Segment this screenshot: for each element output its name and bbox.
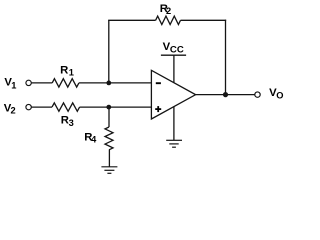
terminal V1 [26,80,31,85]
wire V1 terminal to R1 [31,82,52,84]
wire top rail right segment [181,19,227,21]
wire feedback down to output node [225,20,227,95]
op-amp U1 [151,70,195,119]
label R4 [84,131,97,144]
svg-text:1: 1 [11,80,16,90]
svg-text:O: O [276,90,283,100]
wire op-amp output [196,94,255,96]
wire VCC to op-amp [173,55,175,83]
wire V2 terminal to R3 [31,106,52,108]
wire R4 to ground [108,150,110,167]
resistor R1 [52,79,79,87]
resistor R2 [156,16,181,24]
svg-text:CC: CC [170,45,184,56]
label R2 [160,3,171,16]
label R3 [61,114,74,128]
resistor R4 [105,127,113,150]
ground under op-amp [166,140,182,147]
svg-text:3: 3 [69,118,74,128]
wire node B down to R4 [108,107,110,127]
wire op-amp to ground [173,107,175,141]
label V2 [4,102,16,115]
svg-text:1: 1 [69,67,74,77]
svg-text:2: 2 [11,106,16,116]
resistor R3 [52,103,80,111]
label VCC [163,41,184,56]
label R1 [60,64,74,77]
svg-text:4: 4 [91,134,97,144]
wire top rail left segment [108,19,155,21]
svg-text:R: R [60,64,68,76]
node B junction dot [106,105,111,110]
svg-text:2: 2 [166,6,171,16]
terminal VO [255,92,260,97]
VCC supply bar [161,54,186,56]
ground under R4 [101,167,117,174]
terminal V2 [26,104,31,109]
node A junction dot [106,81,111,86]
label V1 [4,77,16,91]
wire R1 to op-amp inverting input [79,82,151,84]
node output junction dot [223,92,228,97]
wire R3 to op-amp non-inverting input [80,106,152,108]
label VO [269,87,283,100]
non-inverting input plus sign [155,106,161,112]
wire node A up to feedback rail [108,20,110,83]
inverting input minus sign [156,82,161,84]
